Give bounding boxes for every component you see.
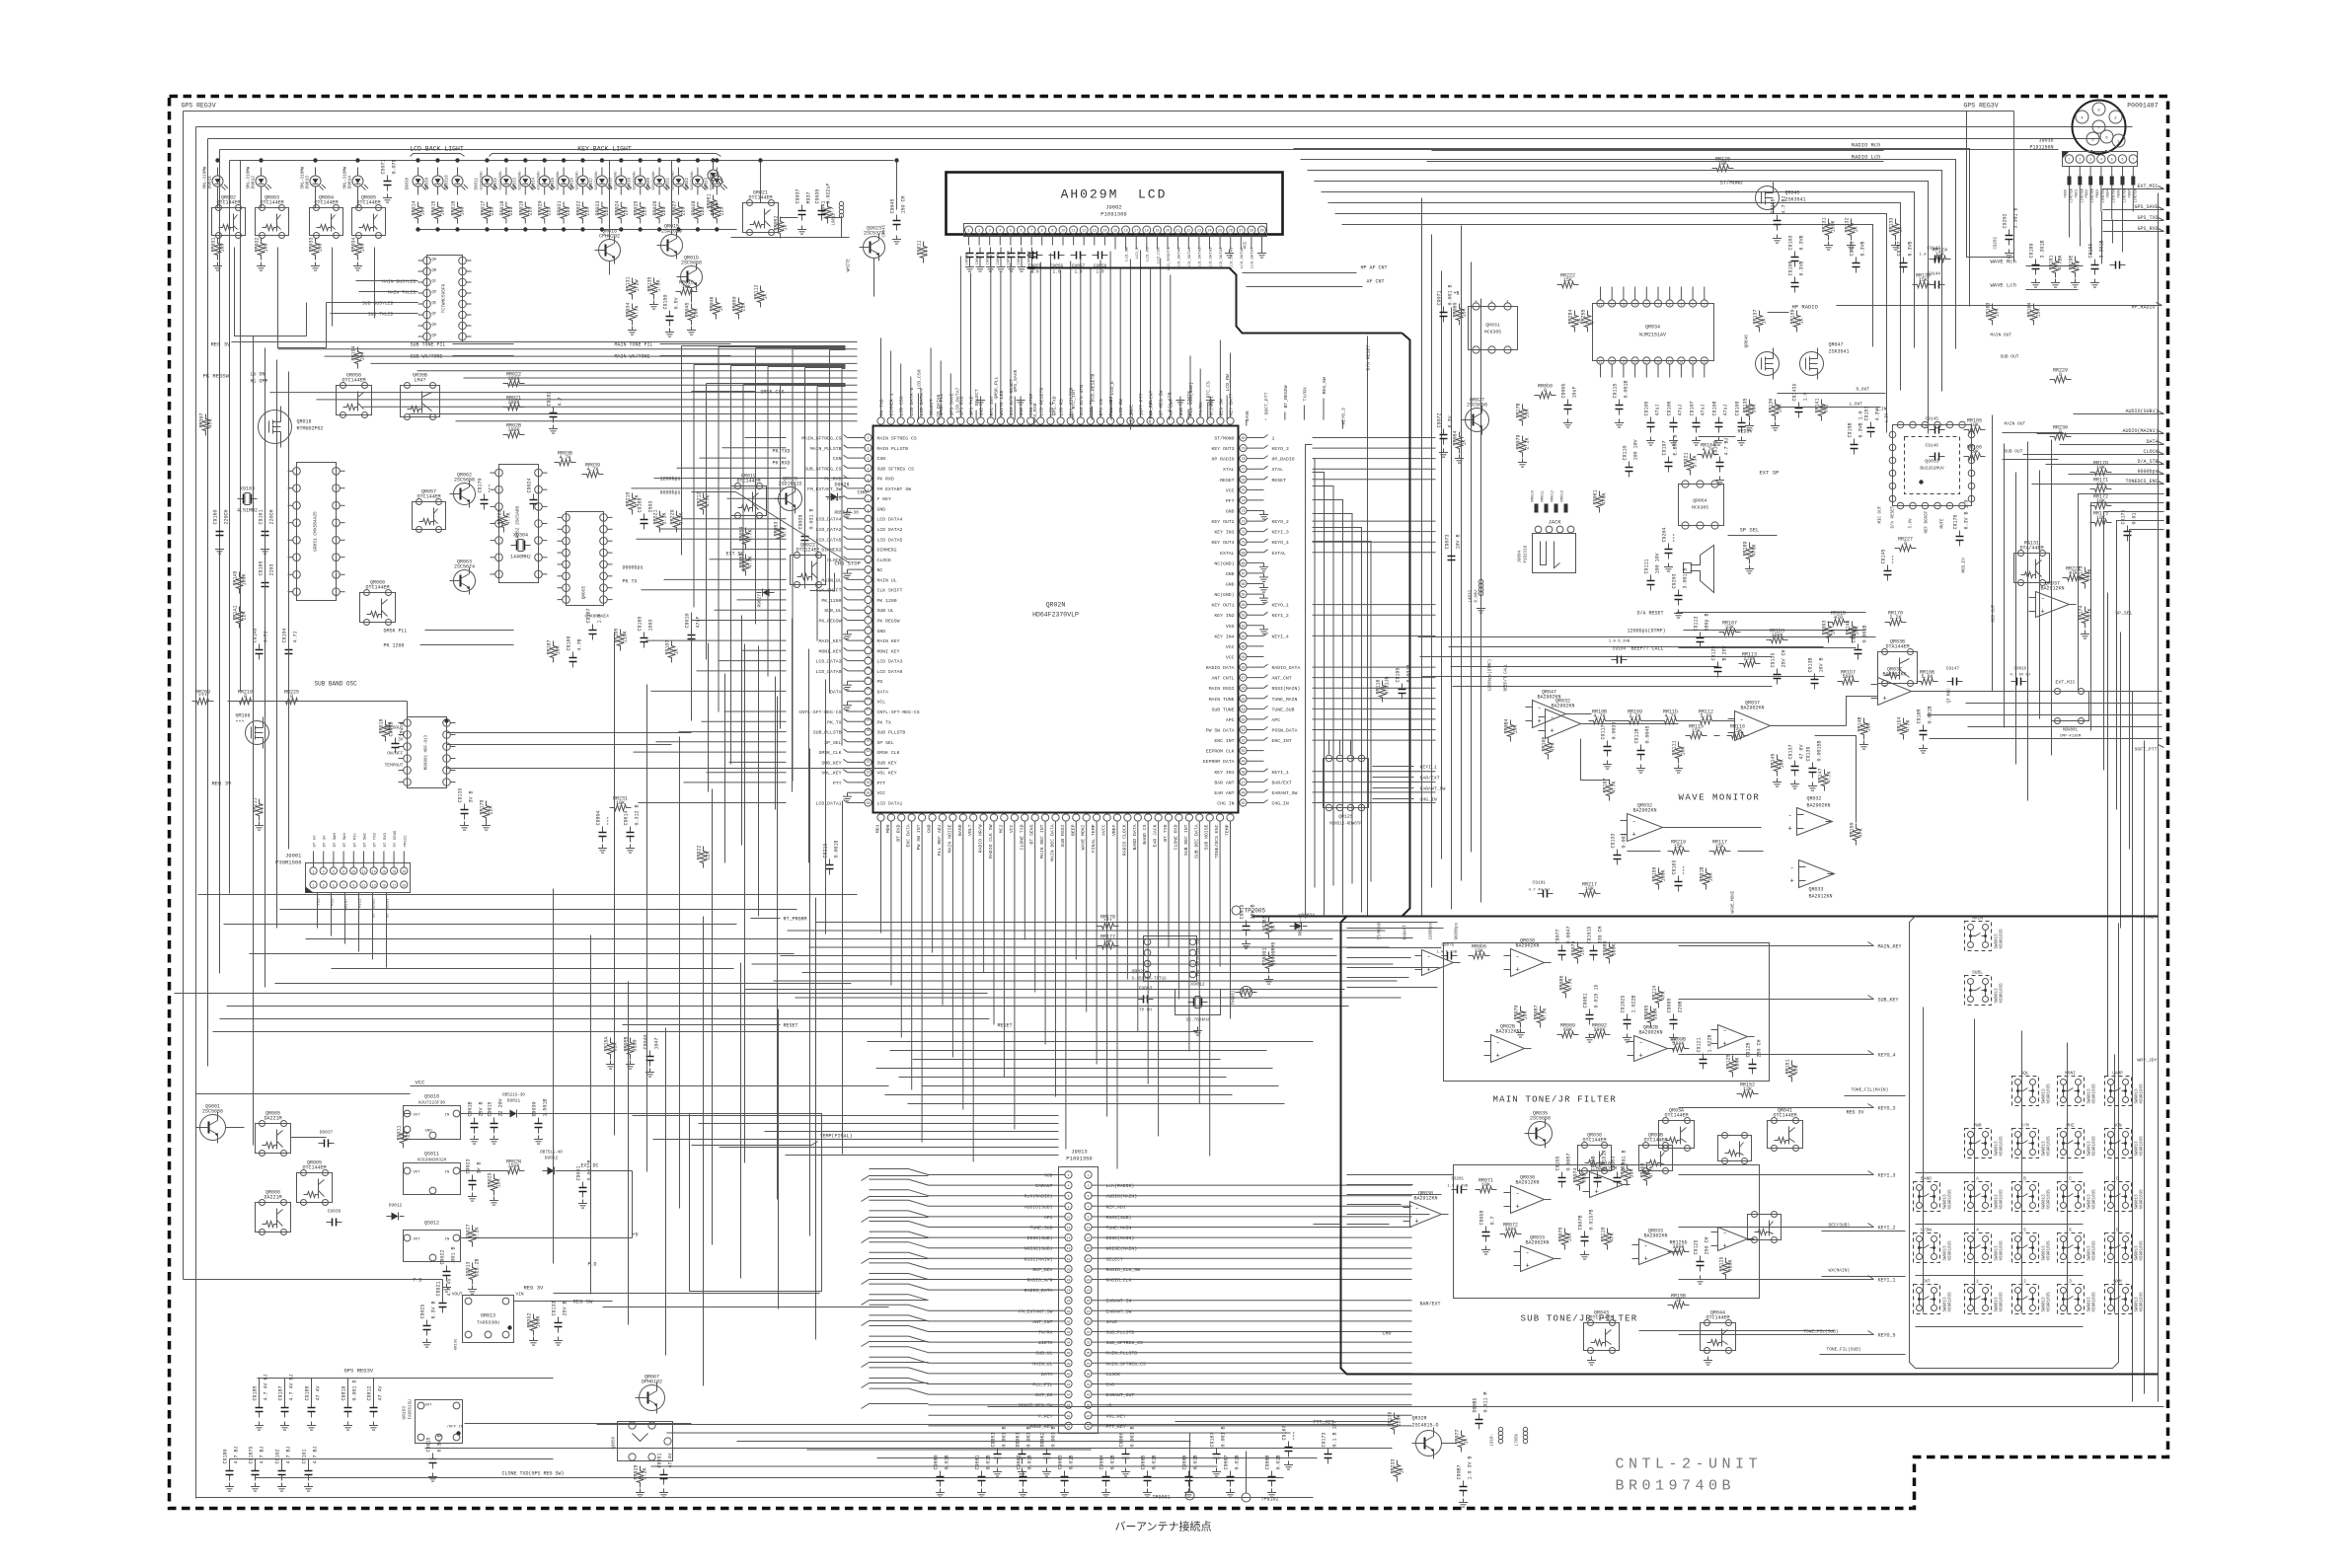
svg-text:EARANT_OUT: EARANT_OUT <box>1106 1392 1135 1398</box>
resistor RR255 0 <box>1584 311 1590 333</box>
crystal X9304 1440MHz <box>511 545 517 547</box>
svg-text:5.6K: 5.6K <box>1921 674 1933 680</box>
gps filter cluster <box>2035 260 2037 265</box>
svg-text:C9660: C9660 <box>934 1455 940 1469</box>
svg-text:PK TX: PK TX <box>877 719 892 725</box>
MCU right pin 19 VSS <box>1240 622 1247 629</box>
op-amp sub e <box>1718 1228 1748 1251</box>
svg-text:VSS: VSS <box>1226 624 1235 630</box>
MCU right pin 23 RADIO DATA <box>1240 664 1247 671</box>
svg-text:C9150: C9150 <box>663 294 669 309</box>
svg-text:BT RXD: BT RXD <box>384 832 388 847</box>
svg-text:E.B01 B: E.B01 B <box>1673 434 1679 455</box>
svg-text:-: - <box>1526 1250 1530 1258</box>
svg-text:36: 36 <box>1067 1352 1071 1355</box>
svg-text:C9015: C9015 <box>426 1437 432 1452</box>
svg-text:IN: IN <box>445 1171 450 1175</box>
svg-text:62: 62 <box>1242 624 1246 628</box>
svg-text:KEYO_3: KEYO_3 <box>1878 1106 1896 1112</box>
svg-text:PM322: PM322 <box>404 835 408 848</box>
diode pack QR006 DA221M <box>256 1203 291 1232</box>
svg-text:***: *** <box>198 694 207 700</box>
LED D9014 <box>352 176 363 187</box>
svg-text:NS9R103S: NS9R103S <box>2001 1189 2005 1210</box>
svg-text:LIMITER: LIMITER <box>2081 188 2085 202</box>
svg-text:LAMP: LAMP <box>2112 1071 2123 1077</box>
svg-text:C916b: C916b <box>1672 859 1678 874</box>
wires audio chain <box>1573 713 1592 715</box>
svg-text:33: 33 <box>867 770 871 774</box>
svg-text:C901b: C901b <box>1240 904 1246 919</box>
MCU right pin 11 KEY OUT4 <box>1240 539 1247 546</box>
MCU top pin PK TXD <box>877 417 884 424</box>
svg-text:VCC: VCC <box>1243 241 1249 249</box>
svg-text:4.7K: 4.7K <box>1664 713 1676 719</box>
left-center horizontal band <box>232 341 858 343</box>
svg-text:C916R: C916R <box>1917 709 1923 723</box>
svg-text:GND: GND <box>1178 408 1184 416</box>
capacitor C9157 1.0 4.3V <box>1870 422 1872 428</box>
svg-text:10K: 10K <box>682 284 691 290</box>
svg-text:LCD_DATA7: LCD_DATA7 <box>955 387 961 412</box>
svg-text:0.01B: 0.01B <box>1193 1455 1199 1469</box>
svg-text:3.301B: 3.301B <box>2040 240 2046 258</box>
svg-text:-: - <box>1788 813 1792 821</box>
svg-text:R9027: R9027 <box>757 594 763 608</box>
svg-text:RR174: RR174 <box>2079 605 2085 620</box>
resistor RR108 4.7K <box>1589 717 1611 723</box>
svg-text:X9304: X9304 <box>513 533 528 539</box>
resistor RR209 <box>192 698 214 704</box>
LED D9018 <box>616 176 627 187</box>
transistor QR067 DPH6102 <box>640 1385 665 1411</box>
svg-text:C9160: C9160 <box>213 509 219 524</box>
svg-text:55: 55 <box>1242 697 1246 701</box>
svg-text:2: 2 <box>868 447 870 451</box>
svg-text:CS: CS <box>1197 938 1201 943</box>
svg-text:270K: 270K <box>1743 656 1755 662</box>
svg-text:10uF: 10uF <box>1572 386 1578 398</box>
svg-text:/OFF IN: /OFF IN <box>447 1425 464 1430</box>
MCU left pin 2 MAIN_PLLSTB <box>865 444 872 451</box>
connector J9013 pin row 15 <box>1065 1317 1072 1324</box>
svg-text:BT TXD: BT TXD <box>374 832 378 847</box>
svg-text:ST/MONO: ST/MONO <box>1378 922 1383 939</box>
svg-text:MAIN OUT: MAIN OUT <box>1991 333 2012 338</box>
MCU left pin 20 GND <box>865 627 872 634</box>
MCU top pin LCD RS <box>1057 417 1064 424</box>
svg-text:15K: 15K <box>2036 308 2042 317</box>
capacitor C9058 <box>1093 255 1099 257</box>
svg-text:1/2W: 1/2W <box>635 279 641 291</box>
svg-text:SUB RSSI: SUB RSSI <box>1060 824 1066 847</box>
resistor RR133 <box>1892 219 1898 241</box>
left lower verticals <box>553 889 555 1264</box>
svg-text:SW9013: SW9013 <box>2043 1194 2047 1210</box>
capacitor C9668 <box>1271 1471 1273 1477</box>
svg-text:TAR5S15U: TAR5S15U <box>410 1399 414 1420</box>
svg-text:4.7: 4.7 <box>783 527 789 536</box>
key switch LAMP <box>2105 1077 2132 1106</box>
svg-text:NS9R103S: NS9R103S <box>1949 1189 1953 1210</box>
svg-text:BAR/EXT: BAR/EXT <box>1420 776 1440 782</box>
svg-text:EXT_DC: EXT_DC <box>1035 1392 1052 1398</box>
svg-text:4: 4 <box>868 468 870 472</box>
MCU left pin 27 VCL <box>865 698 872 705</box>
svg-text:0.001B: 0.001B <box>1624 380 1630 398</box>
svg-text:15K: 15K <box>1733 728 1742 734</box>
svg-text:220: 220 <box>681 206 687 215</box>
vertical bundle right of MCU loops <box>1306 445 1313 919</box>
svg-text:RR028: RR028 <box>691 200 697 215</box>
svg-text:-: - <box>1639 1040 1643 1048</box>
svg-text:C9197: C9197 <box>1662 440 1668 455</box>
MCU left pin 21 MAIN_KEY <box>865 637 872 644</box>
svg-text:47: 47 <box>1087 1415 1091 1418</box>
svg-text:-: - <box>1644 1243 1648 1251</box>
svg-text:MONI KEY: MONI KEY <box>877 648 900 654</box>
connector P0091487 pin 6 <box>2100 130 2113 143</box>
svg-text:2SC5658: 2SC5658 <box>1530 1116 1551 1122</box>
svg-text:1.022B: 1.022B <box>1707 1034 1713 1052</box>
svg-text:MAIN RSSI: MAIN RSSI <box>1209 686 1235 692</box>
svg-text:C9037: C9037 <box>796 188 801 203</box>
LED D9012 <box>500 176 511 187</box>
MCU left pin 16 CLK_SHIFT <box>865 586 872 593</box>
resistor RR041 4.7 <box>824 202 830 224</box>
svg-text:15K: 15K <box>1692 728 1701 734</box>
svg-text:SW9013: SW9013 <box>2088 1245 2092 1261</box>
svg-text:RR137: RR137 <box>1753 309 1759 324</box>
MCU bottom pin RADIO CLK SW <box>990 814 997 821</box>
svg-text:470K: 470K <box>1602 492 1608 504</box>
svg-text:PLL_FIL: PLL_FIL <box>1148 399 1154 418</box>
svg-text:15: 15 <box>382 884 386 888</box>
svg-text:11: 11 <box>867 541 871 545</box>
main filter passives <box>1442 955 1448 957</box>
svg-text:GPS_TXD: GPS_TXD <box>1051 396 1057 415</box>
svg-text:LCD_DATA1: LCD_DATA1 <box>1188 247 1192 268</box>
svg-text:OUT: OUT <box>414 1238 421 1242</box>
svg-text:8: 8 <box>342 870 344 874</box>
svg-text:10V B: 10V B <box>1456 534 1462 549</box>
capacitor D9086 <box>1479 1414 1480 1420</box>
resistor RR060b <box>1535 392 1556 398</box>
coil L4033 0.68U <box>1480 578 1482 598</box>
svg-text:33: 33 <box>1087 1342 1091 1345</box>
MCU bottom pin GND <box>929 814 936 821</box>
resistor RR189 470K <box>1746 543 1752 564</box>
svg-text:19: 19 <box>867 624 871 628</box>
svg-text:SOFT_PTT: SOFT_PTT <box>2134 747 2157 753</box>
svg-text:1.5K: 1.5K <box>656 279 662 291</box>
transistor QR016b 2SC5658 <box>681 266 703 288</box>
svg-text:18: 18 <box>1145 230 1149 234</box>
resistor RP034 <box>354 239 360 261</box>
capacitor C9176 <box>1959 531 1961 537</box>
svg-text:TEMP: TEMP <box>1225 824 1231 836</box>
capacitor C901B 0.01 <box>474 1118 476 1124</box>
resistor RR024 <box>618 202 624 224</box>
long verticals to connector fan <box>614 633 616 1136</box>
svg-text:BAND: BAND <box>1921 1176 1932 1182</box>
svg-text:72: 72 <box>1242 520 1246 524</box>
svg-text:15V B: 15V B <box>400 721 406 736</box>
resistor RR152 12K <box>1737 1090 1759 1096</box>
svg-text:RR139: RR139 <box>1790 309 1796 324</box>
MCU left pin 17 PK_1200 <box>865 596 872 603</box>
svg-text:47: 47 <box>716 202 721 208</box>
svg-text:QR064: QR064 <box>1693 498 1707 504</box>
svg-text:GND: GND <box>1226 571 1235 577</box>
sub tone filter packs <box>1584 1323 1620 1351</box>
MCU right pin 25 MAIN RSSI <box>1240 685 1247 692</box>
svg-text:G207169b: G207169b <box>690 171 695 190</box>
svg-text:C9024: C9024 <box>527 478 533 492</box>
svg-text:RR111: RR111 <box>1672 740 1678 755</box>
svg-text:FM EXTANT SW: FM EXTANT SW <box>877 486 912 492</box>
capacitor C9665 <box>1147 1471 1149 1477</box>
svg-text:63: 63 <box>1242 614 1246 618</box>
regulator QS011 XC636N3032H <box>404 1163 461 1195</box>
resistor RR170 2.2K <box>1885 619 1907 625</box>
resistor RR110 4.7K <box>1660 717 1682 723</box>
svg-text:CH0: CH0 <box>1106 1382 1115 1388</box>
connector J9013 pin row 20 <box>1065 1370 1072 1377</box>
svg-text:34: 34 <box>867 781 871 784</box>
svg-text:E: E <box>2116 1228 2119 1233</box>
svg-text:RM307: RM307 <box>199 412 205 427</box>
svg-text:3V B: 3V B <box>469 790 475 802</box>
svg-text:GM166: GM166 <box>236 713 251 719</box>
svg-text:C90B7: C90B7 <box>1457 1464 1463 1479</box>
svg-text:6: 6 <box>333 870 335 874</box>
svg-text:C9073: C9073 <box>1445 534 1451 549</box>
op-amp QR036 main b <box>1491 1035 1525 1063</box>
wires tone filter feed <box>1347 928 1444 930</box>
MCU right pin 34 BAR ANT <box>1240 779 1247 785</box>
svg-text:BA2912KN: BA2912KN <box>1809 894 1833 900</box>
svg-text:KEYI_2: KEYI_2 <box>1272 613 1289 619</box>
svg-text:TAR5S30U: TAR5S30U <box>477 1320 499 1326</box>
svg-text:35: 35 <box>1087 1352 1091 1355</box>
resistor RR91B 470 <box>1828 619 1850 625</box>
svg-text:21: 21 <box>1176 230 1180 234</box>
svg-text:D2B.2B: D2B.2B <box>475 1258 481 1276</box>
coil L9012 <box>839 201 843 205</box>
MCU bottom pin ENC DATA <box>908 814 915 821</box>
svg-text:EARANT IN: EARANT IN <box>1106 1299 1132 1305</box>
svg-text:10K: 10K <box>2096 465 2105 471</box>
svg-text:RR912: RR912 <box>1552 489 1555 501</box>
svg-text:6: 6 <box>868 488 870 492</box>
svg-text:RP031: RP031 <box>211 237 217 252</box>
svg-text:78: 78 <box>1242 457 1246 461</box>
resistor RR060 15K <box>1456 304 1462 326</box>
svg-text:22K: 22K <box>489 805 494 814</box>
svg-text:***: *** <box>262 803 267 812</box>
svg-text:MAIN SFTREG CS: MAIN SFTREG CS <box>877 436 917 442</box>
svg-text:1503: 1503 <box>648 619 654 631</box>
svg-text:RR105: RR105 <box>1542 736 1548 751</box>
FET QR047 2SK3541 <box>1800 352 1824 376</box>
svg-text:10K: 10K <box>1970 422 1979 428</box>
svg-text:29: 29 <box>1259 230 1263 234</box>
svg-text:15K: 15K <box>1563 277 1572 283</box>
sub filter passives <box>1452 1189 1458 1191</box>
svg-text:10K: 10K <box>1481 1182 1490 1188</box>
MCU bottom pin SUB DEC INT <box>1185 814 1192 821</box>
svg-text:0: 0 <box>1544 388 1547 394</box>
svg-text:NS9R103S: NS9R103S <box>2001 929 2005 949</box>
svg-text:QD: QD <box>432 291 437 295</box>
svg-text:0.01B: 0.01B <box>1069 1455 1075 1469</box>
svg-text:0.001 B: 0.001 B <box>1221 1426 1227 1447</box>
svg-text:LCD DATA5: LCD DATA5 <box>877 537 903 543</box>
svg-text:C9668: C9668 <box>1265 1455 1271 1469</box>
svg-text:C9152: C9152 <box>1897 241 1903 256</box>
svg-text:WX(MAIN): WX(MAIN) <box>1829 1268 1851 1274</box>
svg-text:10: 10 <box>867 530 871 534</box>
svg-text:CLK: CLK <box>1197 947 1201 955</box>
svg-text:KEYO_4: KEYO_4 <box>1878 1053 1896 1059</box>
resistor RR052 <box>777 217 783 239</box>
svg-text:TUNE_SUB: TUNE_SUB <box>1029 1226 1052 1232</box>
svg-text:RR255: RR255 <box>1581 309 1587 324</box>
svg-text:SW9013: SW9013 <box>2088 1088 2092 1104</box>
resistor RB521 <box>656 511 662 533</box>
MCU right pin 36 CHG IN <box>1240 799 1247 806</box>
key switch D <box>2105 1182 2132 1212</box>
svg-text:KEY IN3: KEY IN3 <box>1214 530 1234 536</box>
capacitor C9087 <box>1463 1481 1465 1487</box>
svg-text:13: 13 <box>1093 230 1097 234</box>
resistor RR171 ladder <box>2090 485 2112 491</box>
capacitor C9666 <box>1188 1471 1190 1477</box>
svg-text:26: 26 <box>1229 230 1233 234</box>
svg-text:MAIN TONE FIL: MAIN TONE FIL <box>615 342 653 348</box>
svg-text:F KEY: F KEY <box>877 496 892 502</box>
resistor RR079 2K <box>1519 436 1525 458</box>
connector J9013 pin row 1 <box>1065 1171 1072 1178</box>
MCU top pin GPS SAVE <box>948 417 954 424</box>
connector J9013 pin row 17 <box>1065 1339 1072 1346</box>
svg-text:P.D: P.D <box>588 1262 597 1268</box>
resistor RR05B 3300 <box>627 1038 633 1060</box>
svg-text:SML-310MW: SML-310MW <box>302 166 306 188</box>
svg-text:1.0: 1.0 <box>597 614 603 623</box>
svg-text:LCD_RESETB: LCD_RESETB <box>1090 374 1096 403</box>
capacitor C9118 <box>1640 745 1642 751</box>
svg-text:15K: 15K <box>1580 946 1586 955</box>
svg-text:-: - <box>1415 1206 1419 1214</box>
svg-text:0.001 B: 0.001 B <box>1130 1426 1136 1447</box>
svg-text:220: 220 <box>585 206 591 215</box>
MCU bottom pin BAND DATA <box>1134 814 1141 821</box>
MCU bottom pin TONE/DCS ENC <box>1217 814 1224 821</box>
MCU left pin 22 MONI_KEY <box>865 647 872 654</box>
svg-text:VOL_KEY: VOL_KEY <box>1106 1413 1126 1419</box>
svg-text:2SD1B01S: 2SD1B01S <box>778 482 801 487</box>
svg-text:GPS REG3V: GPS REG3V <box>182 103 216 110</box>
connector left fan wires <box>870 1169 929 1175</box>
svg-text:P30R1506: P30R1506 <box>275 859 301 866</box>
connector J9013 pin row 19 <box>1065 1360 1072 1367</box>
svg-text:5: 5 <box>333 884 335 888</box>
svg-text:6.3V: 6.3V <box>1448 415 1454 427</box>
MCU left pin 35 PTT <box>865 779 872 785</box>
svg-text:SW9013: SW9013 <box>2088 1297 2092 1312</box>
svg-text:MIC OUT: MIC OUT <box>1879 505 1883 523</box>
svg-text:6.3VB: 6.3VB <box>1799 235 1805 250</box>
svg-text:C9165: C9165 <box>259 560 265 575</box>
svg-text:3V B: 3V B <box>477 1161 483 1173</box>
svg-text:22: 22 <box>1703 361 1706 364</box>
svg-text:DATA: DATA <box>830 689 842 695</box>
connector J9013 pin row 14 <box>1065 1307 1072 1314</box>
capacitor C9056 <box>1049 255 1055 257</box>
svg-text:562: 562 <box>1824 404 1830 412</box>
capacitor C9165b <box>644 633 645 638</box>
svg-text:LCD DATA 6: LCD DATA 6 <box>909 388 915 416</box>
svg-text:SOFT_PTT: SOFT_PTT <box>1263 392 1269 414</box>
svg-text:TP9001: TP9001 <box>1152 1495 1170 1501</box>
svg-text:C9106: C9106 <box>1667 401 1673 415</box>
svg-text:14: 14 <box>372 870 376 874</box>
capacitor C9073 10V B <box>1451 551 1453 557</box>
svg-text:0.001 B: 0.001 B <box>1026 1426 1032 1447</box>
svg-text:***: *** <box>538 484 544 492</box>
svg-text:1047: 1047 <box>654 1037 660 1049</box>
resistor RR15B <box>1668 1302 1690 1307</box>
svg-text:RB551V-30: RB551V-30 <box>835 510 860 516</box>
svg-text:+: + <box>1526 1263 1530 1271</box>
svg-text:23K: 23K <box>741 302 747 311</box>
svg-text:VCC: VCC <box>1226 644 1235 650</box>
svg-text:C9143b: C9143b <box>1792 383 1798 401</box>
svg-text:RT9001: RT9001 <box>1262 947 1268 965</box>
svg-text:P0091487: P0091487 <box>2127 103 2158 110</box>
capacitor C9039b <box>327 1222 333 1224</box>
svg-text:52: 52 <box>1242 728 1246 732</box>
resistor RP033 <box>312 239 318 261</box>
MCU top pin REG SW <box>1217 417 1224 424</box>
right edge solid trunk <box>2158 193 2160 1402</box>
svg-text:G207169b: G207169b <box>556 171 561 190</box>
svg-text:1200bps(DTMF): 1200bps(DTMF) <box>1488 659 1493 692</box>
svg-text:RSSI(SUB): RSSI(SUB) <box>1106 1215 1132 1221</box>
svg-text:P1091359: P1091359 <box>1066 1156 1092 1162</box>
transistor QR015 2SA2029 <box>661 235 683 257</box>
svg-text:17: 17 <box>1087 1258 1091 1261</box>
svg-text:470K: 470K <box>1752 544 1758 556</box>
svg-text:R9079: R9079 <box>1571 940 1577 955</box>
svg-text:RADIO_CLK_SW: RADIO_CLK_SW <box>1106 1267 1141 1273</box>
LED D90310 <box>452 176 463 187</box>
svg-text:C9120: C9120 <box>1711 645 1717 660</box>
svg-text:GND: GND <box>1226 582 1235 588</box>
svg-text:RR173: RR173 <box>2079 565 2085 580</box>
resistor RR15R 65K <box>607 1038 613 1060</box>
key switch H/DW <box>1914 1233 1940 1263</box>
svg-text:1200bps(DTMF): 1200bps(DTMF) <box>1628 629 1666 635</box>
svg-text:C9168: C9168 <box>638 497 644 512</box>
svg-text:0.0057: 0.0057 <box>1566 1153 1572 1170</box>
svg-text:1: 1 <box>2069 158 2071 162</box>
capacitor C9170 <box>484 494 486 500</box>
svg-text:QS010: QS010 <box>424 1094 439 1100</box>
horizontal bundle right mid <box>1418 636 1876 638</box>
